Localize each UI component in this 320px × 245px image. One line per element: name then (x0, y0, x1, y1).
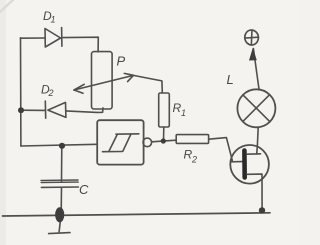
svg-text:C: C (79, 182, 89, 197)
svg-text:1: 1 (181, 108, 186, 118)
svg-text:P: P (117, 54, 126, 69)
svg-text:L: L (227, 72, 234, 87)
svg-text:2: 2 (191, 155, 197, 165)
svg-text:1: 1 (51, 15, 56, 25)
svg-text:2: 2 (48, 88, 54, 98)
